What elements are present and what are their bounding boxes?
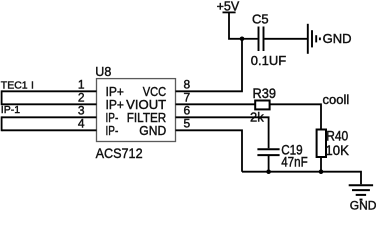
wire pin3 row	[2, 116, 97, 118]
svg-text:IP-1: IP-1	[1, 104, 20, 116]
svg-text:GND: GND	[323, 31, 352, 46]
svg-text:10K: 10K	[325, 143, 349, 158]
wire pin2 row	[2, 103, 97, 105]
svg-text:R39: R39	[253, 86, 277, 101]
svg-text:I: I	[31, 80, 34, 92]
resistor R40 body	[317, 130, 326, 158]
wire C5 right plate to GND	[264, 38, 307, 40]
junction node at C19 / rail	[266, 169, 271, 174]
wire left bus joining pins 1-2	[1, 90, 3, 105]
svg-text:IP-: IP-	[106, 123, 119, 138]
svg-text:7: 7	[184, 91, 191, 105]
capacitor C5 plates	[258, 27, 260, 52]
wire pin1 row	[2, 90, 97, 92]
svg-text:47nF: 47nF	[281, 154, 308, 169]
svg-text:U8: U8	[95, 65, 111, 79]
wire FILTER pin6 to C19	[176, 117, 269, 148]
svg-text:ACS712: ACS712	[96, 145, 143, 161]
capacitor C19 plates	[257, 148, 279, 150]
svg-text:4: 4	[78, 117, 85, 131]
ground symbol (rotated) at C5	[308, 24, 320, 54]
junction node at +5V / C5	[240, 37, 245, 42]
wire left bus joining pins 3-4	[1, 116, 3, 131]
resistor R39 body	[255, 101, 269, 110]
wire C19 bottom plate to rail	[268, 155, 270, 172]
svg-text:C5: C5	[252, 12, 269, 27]
wire VIOUT pin7 to R39	[176, 103, 256, 105]
power +5V bar symbol	[223, 11, 236, 13]
wire pin4 row	[2, 129, 97, 131]
wire ground rail	[242, 172, 361, 185]
svg-text:GND: GND	[350, 199, 377, 212]
wire GND pin5 down to rail	[176, 130, 243, 171]
svg-text:6: 6	[184, 104, 191, 118]
wire node to C5 left plate	[242, 38, 258, 40]
wire VCC pin8 to +5V net	[176, 39, 243, 92]
svg-text:0.1UF: 0.1UF	[251, 53, 286, 68]
junction node at R40 / rail	[319, 169, 324, 174]
svg-text:R40: R40	[326, 129, 348, 144]
svg-text:5: 5	[184, 117, 191, 131]
svg-text:2: 2	[78, 91, 85, 105]
wire R40 bottom to rail	[320, 157, 322, 172]
svg-text:8: 8	[184, 78, 191, 92]
ground symbol bottom	[349, 185, 373, 199]
svg-text:3: 3	[78, 104, 85, 118]
svg-text:cooll: cooll	[323, 92, 350, 107]
svg-text:TEC1: TEC1	[1, 80, 28, 92]
svg-text:1: 1	[78, 78, 85, 92]
wire +5V stem down and over	[229, 12, 242, 38]
svg-text:GND: GND	[139, 123, 166, 138]
IC U8 body	[97, 79, 176, 142]
wire R39 to cooll node	[270, 104, 321, 129]
